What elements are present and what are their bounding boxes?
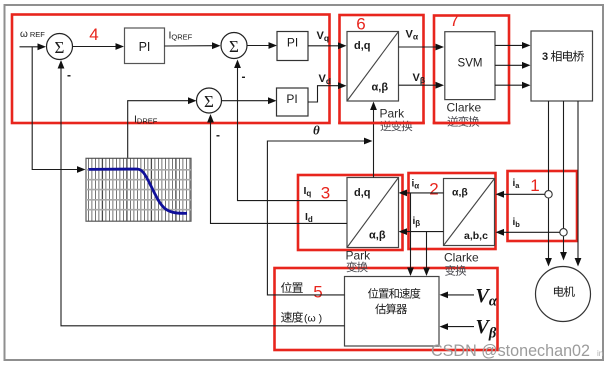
summing junction S3 (d current)	[197, 88, 222, 113]
red highlight box 5 (position & speed estimator)	[275, 268, 498, 350]
svg-text:7: 7	[450, 11, 459, 30]
PI block PI2 (q current regulator)	[277, 32, 308, 61]
red highlight box 3 (Park transform)	[298, 175, 403, 250]
SVM block	[445, 32, 495, 100]
svg-text:Σ: Σ	[204, 92, 214, 111]
label speed output	[281, 312, 292, 323]
svg-text:α,β: α,β	[372, 82, 389, 94]
red highlight box 1 (current sensing)	[508, 171, 578, 241]
summing junction S2 (q current)	[221, 33, 247, 59]
svg-text:2: 2	[429, 180, 438, 199]
red highlight box 4 (speed/current PI loops)	[12, 15, 330, 124]
svg-text:α,β: α,β	[369, 230, 386, 242]
svg-text:-: -	[242, 70, 246, 84]
svg-text:PI: PI	[287, 36, 298, 50]
ramp graph frame	[86, 158, 191, 221]
wire theta: position output to Park blocks	[267, 141, 365, 295]
svg-text:in: in	[597, 349, 603, 358]
current sensor on phase a	[545, 191, 552, 198]
ramp graph speed curve	[89, 169, 188, 213]
red highlight box 2 (Clarke transform)	[409, 173, 496, 249]
wire S1 to PI1	[73, 46, 118, 48]
svg-text:Clarke: Clarke	[447, 101, 482, 115]
wire wREF branch down to ramp graph	[32, 47, 78, 170]
svg-text:a,b,c: a,b,c	[464, 230, 488, 242]
PI block PI3 (d current regulator)	[277, 88, 309, 116]
wire Iq feedback to S2	[238, 66, 348, 201]
svg-text:Σ: Σ	[55, 38, 65, 57]
wire i-alpha Clarke to Park	[404, 192, 444, 194]
svg-text:SVM: SVM	[458, 58, 483, 70]
wire PI1 to S2, net IQREF	[165, 45, 214, 47]
current sensor on phase b	[560, 229, 567, 236]
wires SVM to 3-phase bridge	[495, 44, 524, 46]
svg-text:Clarke: Clarke	[444, 251, 479, 265]
wire wREF input	[20, 46, 40, 48]
svg-text:-: -	[216, 128, 220, 142]
phase wire a	[548, 101, 550, 260]
red highlight box 7 (SVM / inverse Clarke)	[434, 16, 509, 124]
summing junction S1 (speed)	[47, 34, 73, 60]
svg-text:-: -	[67, 68, 71, 82]
svg-text:PI: PI	[286, 92, 297, 106]
phase wire b	[563, 101, 565, 254]
svg-text:1: 1	[530, 176, 539, 195]
label position output	[281, 282, 292, 293]
wire S3 to PI3	[222, 100, 270, 102]
wire Valpha into estimator	[445, 294, 474, 296]
3-phase bridge block	[531, 31, 593, 101]
svg-text:d,q: d,q	[354, 187, 371, 199]
wire Vbeta: inverse Park to SVM	[399, 84, 438, 86]
wire Valpha: inverse Park to SVM	[399, 46, 438, 48]
inverse Park transform block (d,q to alpha,beta)	[347, 32, 399, 102]
svg-text:5: 5	[313, 283, 322, 302]
wire S2 to PI2	[247, 45, 270, 47]
ramp graph grid	[88, 158, 189, 221]
svg-text:Park: Park	[380, 107, 406, 121]
svg-text:α,β: α,β	[452, 187, 468, 199]
svg-text:Σ: Σ	[229, 37, 239, 56]
wire i-beta branch down to estimator	[426, 232, 428, 270]
wire IDREF from ramp graph to S3	[128, 101, 190, 158]
wire PI3 to inverse Park, net Vd	[308, 86, 340, 102]
wire PI2 to inverse Park, net Vq	[308, 45, 340, 47]
label inverse-transform CJK	[380, 121, 391, 132]
svg-text:PI: PI	[139, 40, 151, 54]
red box 7 bottom edge overlay	[433, 122, 511, 125]
svg-text:ωREF: ωREF	[20, 29, 45, 40]
svg-text:6: 6	[356, 15, 365, 34]
Park transform block (alpha,beta to d,q)	[347, 178, 399, 248]
red highlight box 6 (inverse Park)	[340, 15, 424, 123]
Clarke transform block (a,b,c to alpha,beta)	[444, 179, 495, 246]
label inverse-transform CJK under SVM	[447, 116, 458, 127]
svg-text:(ω ): (ω )	[304, 313, 322, 325]
svg-text:4: 4	[89, 25, 98, 44]
wire Vbeta into estimator	[445, 326, 474, 328]
svg-text:θ: θ	[313, 123, 320, 138]
phase wire c	[577, 101, 579, 260]
position and speed estimator block	[345, 277, 440, 347]
wire i-beta Clarke to Park	[404, 231, 444, 233]
PI block PI1 (speed regulator)	[125, 28, 165, 64]
svg-text:3: 3	[321, 184, 330, 203]
wire theta vertical into inverse Park and Park	[373, 107, 375, 178]
wire i-alpha branch down to estimator	[410, 193, 412, 270]
wire Id feedback to S3	[211, 120, 348, 223]
motor	[536, 267, 591, 322]
wire ib tap to Clarke	[501, 231, 560, 233]
label transform CJK under Park	[347, 262, 357, 273]
label transform CJK under Clarke	[445, 265, 455, 276]
svg-text:d,q: d,q	[354, 40, 371, 52]
svg-text:3: 3	[542, 51, 548, 63]
svg-text:Park: Park	[346, 249, 372, 263]
svg-text:CSDN @stonechan02: CSDN @stonechan02	[431, 341, 590, 360]
wire speed feedback to S1	[61, 66, 345, 326]
red box 6 bottom edge overlay	[338, 122, 425, 125]
wire ia tap to Clarke	[501, 193, 545, 195]
